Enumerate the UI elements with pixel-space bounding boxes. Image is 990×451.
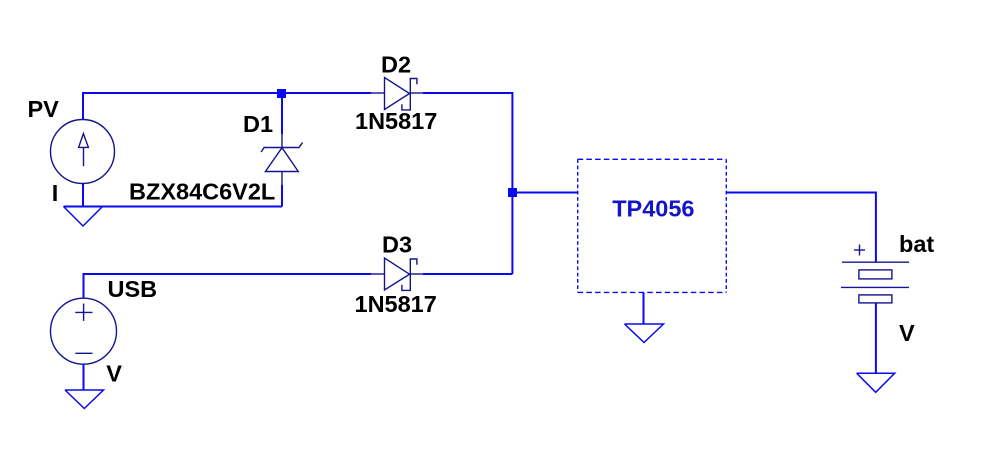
ground (USB) bbox=[65, 390, 104, 409]
wire TP4056 ground stem bbox=[643, 292, 645, 324]
svg-text:BZX84C6V2L: BZX84C6V2L bbox=[129, 178, 275, 204]
TP4056 block bbox=[578, 159, 727, 292]
svg-text:I: I bbox=[52, 180, 59, 206]
svg-text:V: V bbox=[899, 320, 915, 346]
node B (trunk / TP input junction) bbox=[508, 188, 517, 197]
wire TP4056 output to battery bbox=[726, 193, 876, 263]
ground (battery) bbox=[857, 373, 895, 392]
svg-text:D3: D3 bbox=[382, 232, 412, 258]
svg-text:TP4056: TP4056 bbox=[612, 195, 694, 221]
wire USB bottom stem bbox=[83, 364, 85, 390]
svg-text:USB: USB bbox=[108, 276, 158, 302]
zener diode D1 bbox=[261, 134, 303, 185]
svg-text:D2: D2 bbox=[381, 51, 411, 77]
wire bottom rail PV-D1 bbox=[64, 206, 283, 208]
svg-text:1N5817: 1N5817 bbox=[355, 108, 437, 134]
wire D3 right to trunk bbox=[423, 273, 512, 275]
wire D1 top stem bbox=[281, 93, 283, 134]
voltage source USB bbox=[51, 298, 117, 364]
svg-text:V: V bbox=[106, 361, 122, 387]
schottky diode D2 bbox=[371, 78, 423, 110]
svg-text:PV: PV bbox=[28, 96, 60, 122]
ground (PV) bbox=[64, 207, 103, 227]
current source PV bbox=[51, 120, 115, 184]
svg-text:D1: D1 bbox=[243, 111, 273, 137]
schottky diode D3 bbox=[371, 258, 423, 290]
battery bat bbox=[841, 245, 909, 303]
wire D1 bottom stem bbox=[281, 185, 283, 207]
wire PV bottom rail to D1 bbox=[82, 184, 84, 207]
wire USB top to bottom rail bbox=[84, 274, 372, 298]
wire battery bottom stem bbox=[875, 303, 877, 373]
svg-text:1N5817: 1N5817 bbox=[355, 291, 437, 317]
node A (rail / D1 junction) bbox=[277, 89, 286, 98]
svg-text:bat: bat bbox=[899, 231, 934, 257]
wire PV top to rail bbox=[83, 93, 371, 120]
ground (TP4056) bbox=[625, 324, 664, 343]
wire node to TP4056 input bbox=[512, 192, 577, 194]
wire D2 right to vertical trunk bbox=[423, 93, 512, 274]
